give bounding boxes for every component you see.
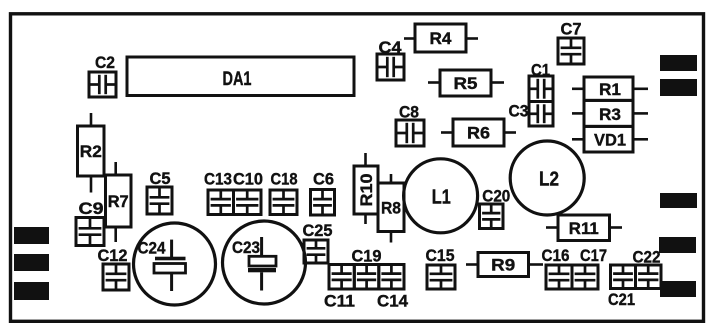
- svg-text:C9: C9: [79, 199, 104, 218]
- svg-text:R6: R6: [467, 124, 490, 143]
- capacitor C12: [98, 246, 130, 290]
- wire R7 top lead: [114, 162, 117, 175]
- svg-text:R2: R2: [80, 142, 102, 161]
- capacitor C17: [572, 246, 607, 289]
- svg-text:C24: C24: [138, 239, 166, 258]
- svg-text:C18: C18: [271, 170, 298, 189]
- capacitor C3: [509, 102, 554, 127]
- capacitor C23: [223, 221, 306, 304]
- capacitor C9: [76, 199, 104, 246]
- capacitor C7: [558, 20, 584, 65]
- inductor L1: [404, 159, 478, 233]
- pad right P8: [660, 281, 696, 297]
- resistor R8: [378, 183, 404, 232]
- capacitor C21: [608, 265, 636, 309]
- capacitor C20: [480, 187, 511, 229]
- svg-text:C12: C12: [98, 246, 128, 265]
- svg-text:L1: L1: [432, 187, 451, 209]
- wire R11 left lead: [546, 226, 558, 229]
- svg-text:C19: C19: [352, 247, 382, 266]
- capacitor C11: [324, 265, 355, 311]
- svg-text:R3: R3: [599, 105, 621, 124]
- svg-text:C7: C7: [561, 20, 582, 39]
- capacitor C10: [233, 170, 263, 215]
- pad right P4: [660, 55, 697, 71]
- resistor R3: [584, 100, 633, 126]
- svg-text:C8: C8: [399, 103, 419, 122]
- resistor R10: [354, 166, 378, 214]
- wire R11 right lead: [610, 226, 622, 229]
- wire R7 bottom lead: [114, 227, 117, 242]
- wire R1 right lead: [633, 88, 648, 91]
- svg-text:L2: L2: [539, 169, 559, 191]
- svg-text:C23: C23: [232, 238, 260, 257]
- svg-text:R10: R10: [357, 174, 376, 207]
- pad left P2: [14, 254, 49, 271]
- capacitor C5: [147, 169, 172, 214]
- svg-text:R9: R9: [491, 256, 515, 275]
- capacitor C15: [426, 246, 456, 289]
- wire R3 right lead: [633, 112, 648, 115]
- inductor L2: [510, 141, 584, 215]
- svg-text:R1: R1: [599, 80, 621, 99]
- wire R8 top lead: [390, 174, 393, 183]
- wire R6 left lead: [441, 131, 453, 134]
- wire R2 bottom lead: [90, 176, 93, 193]
- svg-text:R8: R8: [381, 198, 401, 217]
- wire R4 right lead: [466, 37, 478, 40]
- svg-text:C25: C25: [303, 221, 333, 240]
- capacitor C13: [204, 170, 234, 215]
- capacitor C19: [352, 247, 382, 290]
- svg-text:R7: R7: [108, 192, 129, 211]
- capacitor C24: [134, 223, 216, 305]
- svg-text:C4: C4: [379, 38, 403, 57]
- capacitor C1: [529, 61, 553, 102]
- svg-text:C11: C11: [324, 292, 355, 311]
- svg-text:C15: C15: [426, 246, 455, 265]
- capacitor C22: [633, 248, 662, 289]
- wire R2 top lead: [90, 113, 93, 126]
- svg-text:R5: R5: [454, 74, 478, 93]
- capacitor C2: [89, 53, 116, 97]
- svg-text:C14: C14: [377, 292, 409, 311]
- resistor R2: [78, 126, 105, 176]
- capacitor C18: [270, 170, 298, 215]
- svg-text:C17: C17: [580, 246, 607, 265]
- svg-text:VD1: VD1: [594, 131, 626, 150]
- svg-text:R4: R4: [430, 29, 453, 48]
- wire R1 left lead: [572, 88, 584, 91]
- svg-text:C6: C6: [313, 170, 334, 189]
- svg-text:C10: C10: [233, 170, 263, 189]
- wire R9 right lead: [529, 263, 544, 266]
- svg-text:DA1: DA1: [223, 69, 252, 90]
- pad left P3: [14, 282, 49, 300]
- IC DA1: [127, 57, 354, 96]
- svg-text:C16: C16: [542, 246, 570, 265]
- wire R3 left lead: [572, 112, 584, 115]
- capacitor C16: [542, 246, 573, 289]
- resistor R4: [415, 24, 466, 52]
- wire R8 bottom lead: [390, 232, 393, 243]
- resistor R7: [106, 175, 132, 227]
- resistor R9: [478, 253, 529, 277]
- wire R5 left lead: [428, 81, 440, 84]
- svg-text:C13: C13: [204, 170, 232, 189]
- wire R4 left lead: [404, 37, 415, 40]
- wire R5 right lead: [491, 81, 504, 84]
- svg-text:R11: R11: [569, 219, 599, 238]
- svg-text:C2: C2: [95, 53, 115, 72]
- capacitor C6: [311, 170, 335, 216]
- wire R10 bottom lead: [364, 214, 367, 224]
- resistor R1: [584, 77, 633, 100]
- resistor R11: [558, 215, 610, 241]
- wire R9 left lead: [466, 263, 478, 266]
- svg-text:C21: C21: [608, 290, 635, 309]
- capacitor C25: [303, 221, 333, 263]
- diode VD1: [584, 126, 633, 152]
- svg-text:C22: C22: [633, 248, 661, 267]
- svg-text:C20: C20: [482, 187, 510, 206]
- capacitor C8: [396, 103, 424, 147]
- resistor R6: [453, 119, 504, 146]
- resistor R5: [440, 70, 491, 96]
- wire R10 top lead: [364, 153, 367, 166]
- wire R6 right lead: [504, 131, 516, 134]
- svg-text:C5: C5: [150, 169, 171, 188]
- pad left P1: [14, 227, 49, 244]
- wire VD1 right lead: [633, 138, 648, 141]
- capacitor C4: [377, 38, 404, 80]
- pad right P5: [660, 79, 697, 96]
- svg-text:C3: C3: [509, 102, 529, 121]
- capacitor C14: [377, 265, 409, 311]
- svg-text:C1: C1: [531, 61, 550, 80]
- wire VD1 left lead: [572, 138, 584, 141]
- pad right P7: [659, 237, 696, 253]
- pad right P6: [660, 193, 697, 208]
